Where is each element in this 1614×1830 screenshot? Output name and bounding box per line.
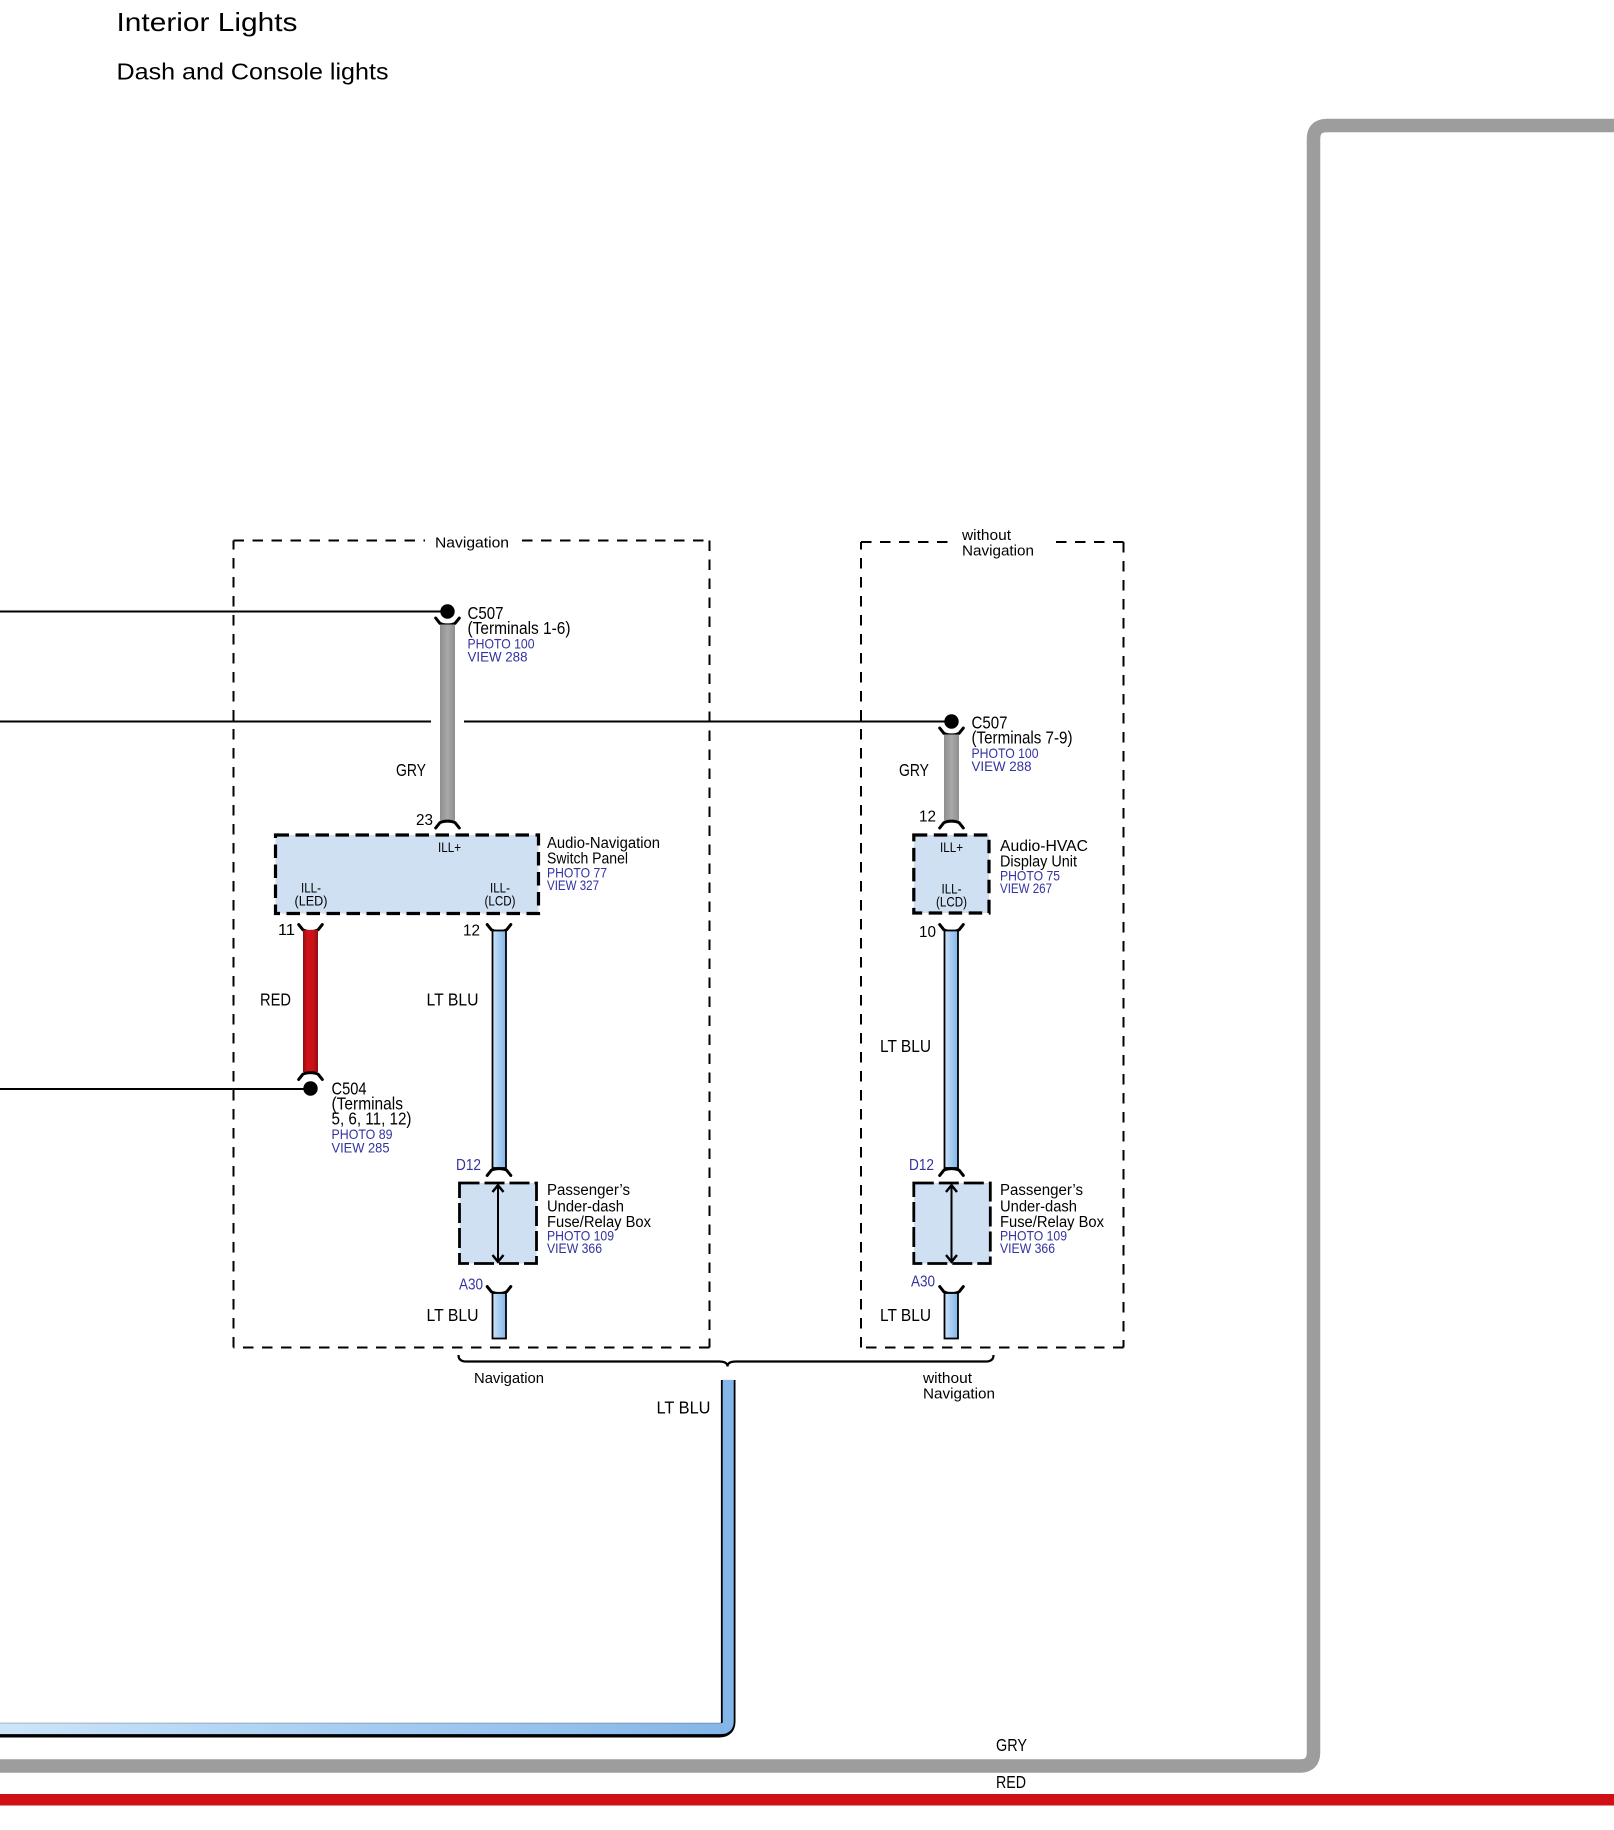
connector pin 11 top half xyxy=(299,925,323,932)
label without Navigation branch xyxy=(922,1370,995,1403)
svg-text:LT BLU: LT BLU xyxy=(880,1305,931,1325)
svg-text:GRY: GRY xyxy=(396,760,426,780)
connector pin 12 top half xyxy=(487,925,511,932)
svg-text:A30: A30 xyxy=(459,1277,483,1294)
svg-text:Passenger’s: Passenger’s xyxy=(547,1182,630,1199)
connector A30 top half xyxy=(487,1287,511,1294)
svg-text:D12: D12 xyxy=(909,1157,934,1174)
node C507 (Terminals 1-6) xyxy=(440,604,454,618)
connector A30 right top half xyxy=(940,1287,964,1294)
svg-text:VIEW 285: VIEW 285 xyxy=(332,1140,390,1156)
label Passenger's Under-dash Fuse/Relay Box right xyxy=(1000,1182,1104,1256)
wire into C507 terminals 1-6 xyxy=(0,611,447,613)
svg-text:Audio-Navigation: Audio-Navigation xyxy=(547,835,660,852)
svg-text:VIEW 366: VIEW 366 xyxy=(547,1240,602,1256)
svg-text:Navigation: Navigation xyxy=(474,1370,544,1387)
wire LT BLU lower left xyxy=(493,1293,507,1339)
svg-text:GRY: GRY xyxy=(996,1735,1027,1755)
wire RED bottom xyxy=(0,1794,1614,1806)
svg-text:10: 10 xyxy=(919,924,936,941)
svg-text:VIEW 327: VIEW 327 xyxy=(547,877,599,893)
svg-text:LT BLU: LT BLU xyxy=(427,1305,479,1325)
svg-text:Navigation: Navigation xyxy=(962,543,1034,560)
label Audio-Navigation Switch Panel xyxy=(547,835,660,893)
svg-text:23: 23 xyxy=(416,812,433,829)
connector D12 right bottom half xyxy=(940,1169,964,1176)
label Audio-HVAC Display Unit xyxy=(1000,838,1088,896)
svg-text:Under-dash: Under-dash xyxy=(1000,1199,1077,1216)
svg-text:D12: D12 xyxy=(456,1157,481,1174)
svg-text:RED: RED xyxy=(260,990,291,1010)
svg-text:(LCD): (LCD) xyxy=(485,893,516,909)
component fuse/relay box right xyxy=(914,1183,991,1264)
component U2 Audio-HVAC Display Unit xyxy=(914,835,989,913)
svg-text:(LED): (LED) xyxy=(295,893,328,909)
connector D12 bottom half xyxy=(487,1169,511,1176)
svg-text:LT BLU: LT BLU xyxy=(880,1036,931,1056)
svg-text:VIEW 288: VIEW 288 xyxy=(468,649,528,665)
svg-text:without: without xyxy=(922,1370,973,1387)
connector pin 12 right bottom half xyxy=(940,821,964,828)
svg-text:11: 11 xyxy=(278,922,295,939)
svg-text:12: 12 xyxy=(919,809,936,826)
connector C504 bottom half xyxy=(299,1073,323,1080)
connector C507 7-9 top half xyxy=(940,728,964,735)
component fuse/relay box left xyxy=(460,1183,537,1264)
component U1 Audio-Navigation Switch Panel xyxy=(276,835,539,914)
label C507 (Terminals 7-9) xyxy=(972,713,1073,775)
wire GRY vertical right xyxy=(944,735,959,821)
dashed box without Navigation xyxy=(861,527,1124,1348)
svg-text:Passenger’s: Passenger’s xyxy=(1000,1182,1083,1199)
svg-text:Navigation: Navigation xyxy=(923,1386,995,1403)
svg-text:ILL+: ILL+ xyxy=(438,839,461,855)
svg-text:ILL+: ILL+ xyxy=(940,839,963,855)
svg-text:LT BLU: LT BLU xyxy=(427,990,479,1010)
wire RED vertical xyxy=(303,930,318,1072)
label Passenger's Under-dash Fuse/Relay Box left xyxy=(547,1182,651,1256)
svg-text:GRY: GRY xyxy=(899,760,929,780)
svg-text:Dash and Console lights: Dash and Console lights xyxy=(117,59,389,85)
svg-text:VIEW 267: VIEW 267 xyxy=(1000,880,1052,896)
connector pin 23 bottom half xyxy=(436,821,460,828)
wire LT BLU trunk xyxy=(0,1380,728,1730)
node C504 xyxy=(303,1081,317,1095)
svg-text:A30: A30 xyxy=(911,1274,935,1291)
svg-text:(LCD): (LCD) xyxy=(936,894,967,910)
brace selector xyxy=(459,1355,994,1367)
wire LT BLU right column xyxy=(945,931,959,1169)
svg-text:without: without xyxy=(961,527,1012,544)
wire LT BLU lower right xyxy=(945,1293,959,1339)
wire LT BLU left column xyxy=(493,931,507,1169)
svg-text:VIEW 288: VIEW 288 xyxy=(972,758,1032,774)
wire GRY vertical left xyxy=(440,625,455,821)
wire into C507 terminals 7-9 xyxy=(0,721,951,723)
svg-text:LT BLU: LT BLU xyxy=(657,1398,711,1418)
svg-text:RED: RED xyxy=(996,1772,1026,1792)
dashed box Navigation xyxy=(234,535,710,1348)
svg-text:Interior Lights: Interior Lights xyxy=(117,7,298,37)
connector C507 top half xyxy=(436,618,460,625)
svg-text:Under-dash: Under-dash xyxy=(547,1199,624,1216)
wire into C504 xyxy=(0,1088,304,1090)
connector pin 10 top half xyxy=(940,925,964,932)
svg-text:Audio-HVAC: Audio-HVAC xyxy=(1000,838,1088,855)
label C504 (Terminals 5,6,11,12) xyxy=(332,1079,412,1156)
svg-text:VIEW 366: VIEW 366 xyxy=(1000,1240,1055,1256)
node C507 (Terminals 7-9) xyxy=(944,714,958,728)
svg-text:12: 12 xyxy=(463,923,480,940)
svg-text:Navigation: Navigation xyxy=(435,535,509,552)
label C507 (Terminals 1-6) xyxy=(468,603,571,665)
